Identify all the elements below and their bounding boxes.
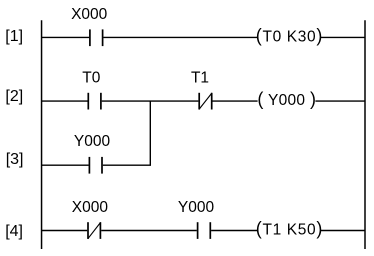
svg-text:Y000: Y000	[74, 133, 111, 150]
svg-text:[4]: [4]	[5, 223, 23, 240]
svg-text:X000: X000	[71, 6, 108, 23]
svg-text:(T1 K50): (T1 K50)	[256, 219, 323, 239]
svg-text:[2]: [2]	[5, 88, 23, 105]
svg-text:( Y000 ): ( Y000 )	[257, 89, 316, 109]
svg-text:[1]: [1]	[5, 28, 23, 45]
svg-text:T1: T1	[191, 70, 209, 87]
svg-text:(T0 K30): (T0 K30)	[256, 26, 323, 46]
svg-text:Y000: Y000	[178, 199, 215, 216]
svg-text:[3]: [3]	[6, 151, 24, 168]
svg-text:T0: T0	[82, 70, 100, 87]
svg-text:X000: X000	[72, 199, 109, 216]
